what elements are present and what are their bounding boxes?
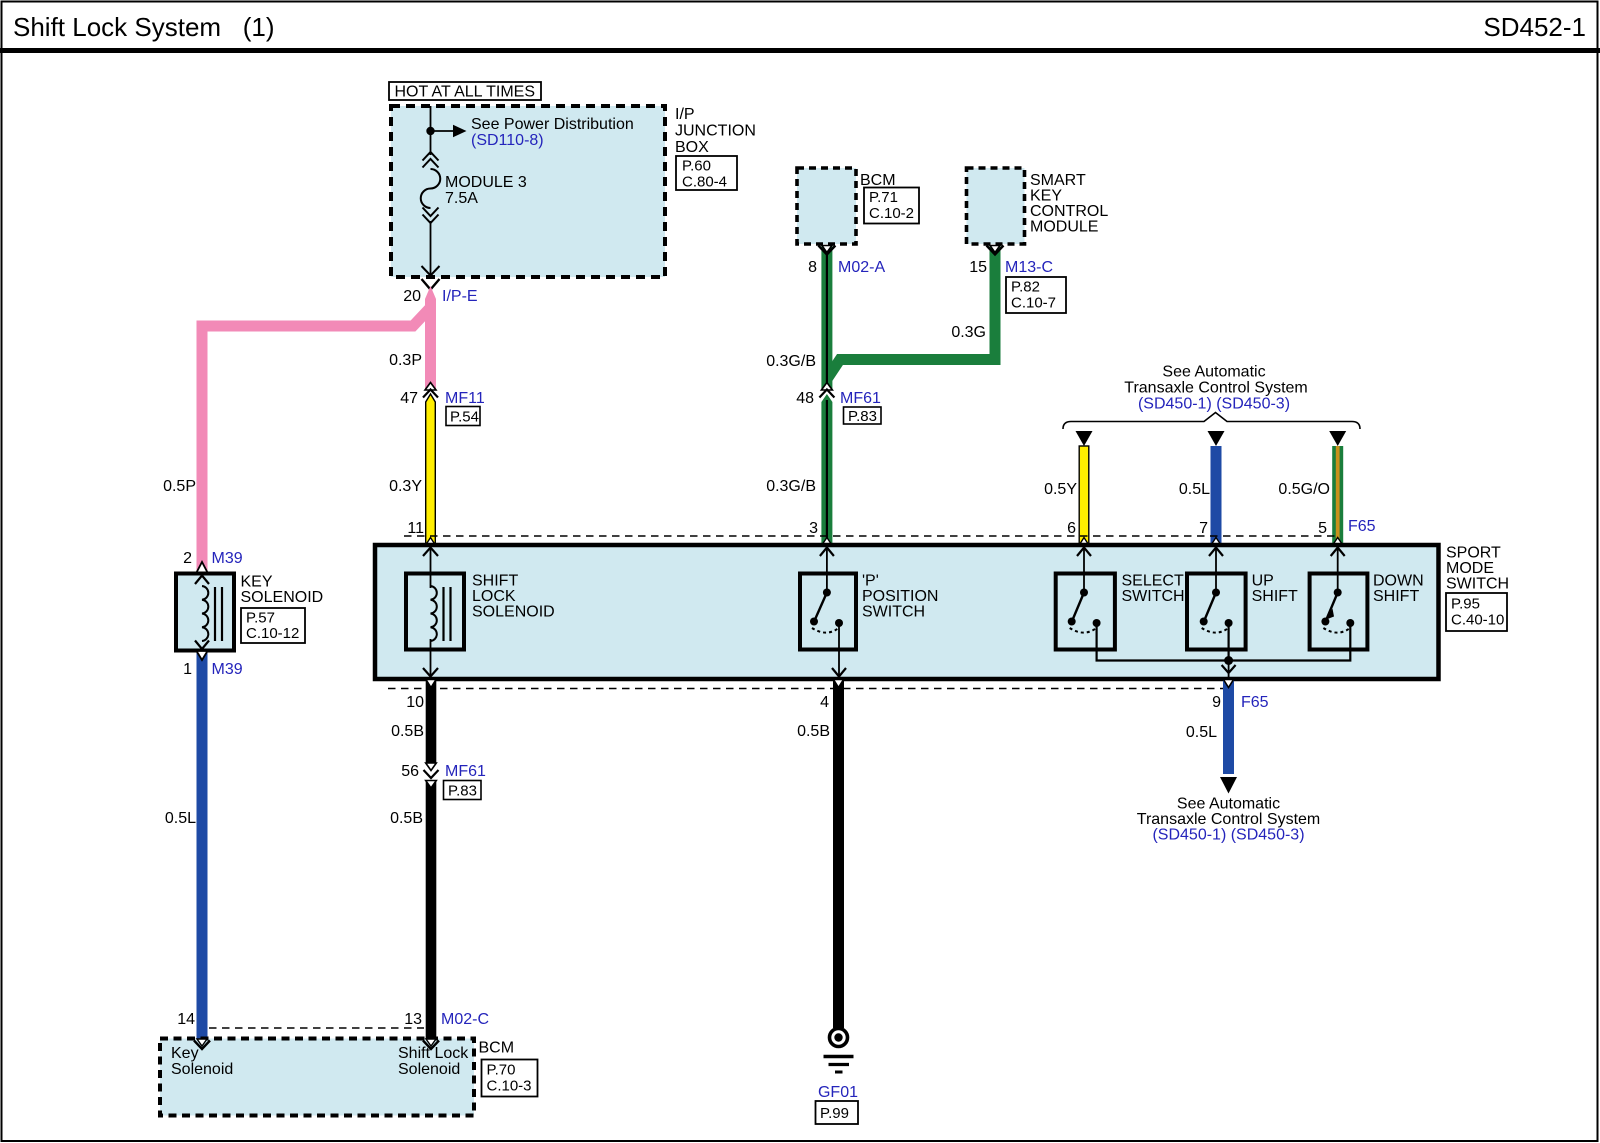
branch arrow to See Power Distribution bbox=[431, 125, 467, 137]
svg-text:See Automatic: See Automatic bbox=[1177, 796, 1280, 813]
notch pin 5 bbox=[1333, 538, 1343, 546]
notch pin 14 bbox=[197, 1039, 207, 1046]
svg-text:KEY: KEY bbox=[241, 574, 273, 591]
down shift switch box bbox=[1310, 574, 1368, 650]
junction dot pin 9 bbox=[1224, 656, 1233, 665]
svg-text:SHIFT: SHIFT bbox=[1373, 588, 1419, 605]
connector 47 MF11: notch, chevron bbox=[423, 383, 438, 398]
connector pin 15 notch and chevron bbox=[987, 246, 1004, 255]
wire 0.3P pink vertical from I/P-E bbox=[425, 286, 436, 390]
svg-text:0.5B: 0.5B bbox=[797, 723, 830, 740]
svg-text:C.10-2: C.10-2 bbox=[869, 205, 914, 222]
svg-text:Solenoid: Solenoid bbox=[398, 1061, 460, 1078]
connector 56 MF61: tip, notch, chevron bbox=[424, 763, 439, 778]
label SPORT MODE SWITCH bbox=[1446, 545, 1509, 593]
fuse MODULE 3 7.5A bbox=[421, 152, 441, 276]
svg-text:DOWN: DOWN bbox=[1373, 573, 1424, 590]
BCM bottom box (dashed) bbox=[160, 1039, 474, 1116]
notch below connector 56 bbox=[426, 781, 437, 789]
harness dashed line top bbox=[404, 535, 1338, 537]
svg-text:MF11: MF11 bbox=[445, 390, 485, 407]
svg-text:10: 10 bbox=[406, 694, 424, 711]
svg-text:I/P-E: I/P-E bbox=[442, 288, 478, 305]
svg-text:2: 2 bbox=[183, 550, 192, 567]
wire 0.3G/B green with black stripe from BCM to MF61 bbox=[821, 246, 832, 391]
label box P.83 (MF61-48) bbox=[844, 407, 882, 425]
svg-text:F65: F65 bbox=[1348, 518, 1376, 535]
BCM box (dashed) bbox=[797, 168, 856, 244]
svg-text:0.5Y: 0.5Y bbox=[1044, 481, 1077, 498]
svg-text:9: 9 bbox=[1212, 694, 1221, 711]
wire 0.5L blue from key solenoid to pin 14 bbox=[197, 651, 208, 1039]
notch pin 3 bbox=[822, 538, 832, 546]
SMART KEY CONTROL MODULE box (dashed) bbox=[967, 168, 1025, 244]
select switch box bbox=[1056, 574, 1115, 650]
svg-text:C.40-10: C.40-10 bbox=[1451, 612, 1504, 629]
svg-text:0.3G/B: 0.3G/B bbox=[766, 353, 816, 370]
svg-text:SHIFT: SHIFT bbox=[1252, 588, 1298, 605]
svg-text:UP: UP bbox=[1252, 573, 1274, 590]
svg-text:0.3G/B: 0.3G/B bbox=[766, 478, 816, 495]
connector chevron pin 14 bbox=[194, 1041, 210, 1050]
wire 0.5G/O green-orange to pin 5 bbox=[1332, 446, 1343, 545]
label box P.82 C.10-7 bbox=[1006, 277, 1066, 313]
label box P.99 bbox=[816, 1101, 859, 1124]
wire 0.5B black from MF61-56 to pin 13 bbox=[426, 780, 437, 1039]
title separator line bbox=[0, 48, 1600, 53]
svg-text:5: 5 bbox=[1318, 520, 1327, 537]
label DOWN SHIFT bbox=[1373, 573, 1424, 606]
svg-text:P.54: P.54 bbox=[450, 409, 479, 426]
svg-text:1: 1 bbox=[183, 661, 192, 678]
label box P.71 C.10-2 bbox=[864, 188, 919, 224]
svg-text:F65: F65 bbox=[1241, 694, 1269, 711]
arrow triangle below pin 9 wire bbox=[1220, 777, 1237, 794]
svg-text:C.10-7: C.10-7 bbox=[1011, 295, 1056, 312]
connector pin 8 notch and chevron bbox=[818, 246, 835, 255]
svg-text:GF01: GF01 bbox=[818, 1084, 858, 1101]
svg-text:MF61: MF61 bbox=[840, 390, 881, 407]
key solenoid box bbox=[176, 574, 234, 651]
svg-text:SMART: SMART bbox=[1030, 172, 1086, 189]
svg-text:Shift Lock System (1): Shift Lock System (1) bbox=[13, 12, 275, 42]
wire interconnect select/up/down to pin 9 bbox=[1097, 623, 1351, 661]
notch pin 11 bbox=[426, 538, 436, 546]
svg-text:56: 56 bbox=[401, 763, 419, 780]
svg-text:15: 15 bbox=[969, 259, 987, 276]
connector 48 MF61: notch, chevron bbox=[819, 383, 834, 398]
down shift switch internal wire bbox=[1331, 545, 1345, 592]
label box P.57 C.10-12 bbox=[241, 608, 305, 643]
wire 0.5P pink branch to key solenoid bbox=[202, 309, 429, 573]
arrow triangle above wire 5 bbox=[1329, 431, 1346, 446]
svg-text:SPORT: SPORT bbox=[1446, 545, 1501, 562]
svg-text:MODULE 3: MODULE 3 bbox=[445, 174, 527, 191]
'P' position switch internal wires bbox=[820, 545, 846, 679]
notch pin 13 bbox=[426, 1039, 436, 1046]
svg-text:C.10-3: C.10-3 bbox=[487, 1078, 532, 1095]
svg-text:P.57: P.57 bbox=[246, 610, 275, 627]
label box P.83 (MF61-56) bbox=[444, 781, 482, 800]
label Shift Lock Solenoid bbox=[398, 1045, 469, 1078]
bracket over wires 6,7,5 bbox=[1063, 413, 1360, 430]
svg-text:See Automatic: See Automatic bbox=[1162, 364, 1265, 381]
svg-text:JUNCTION: JUNCTION bbox=[675, 123, 756, 140]
svg-text:0.5P: 0.5P bbox=[163, 478, 196, 495]
notch pin 7 bbox=[1211, 538, 1221, 546]
wire 0.3Y yellow from MF11 to pin 11 bbox=[426, 394, 436, 545]
shift lock solenoid box bbox=[406, 574, 464, 650]
notch pin 9 bbox=[1224, 680, 1234, 688]
svg-text:KEY: KEY bbox=[1030, 188, 1062, 205]
connector 20 I/P-E chevron bbox=[422, 279, 440, 290]
svg-text:0.3P: 0.3P bbox=[389, 352, 422, 369]
svg-text:SWITCH: SWITCH bbox=[862, 604, 925, 621]
label See Automatic Transaxle Control System (bottom) bbox=[1137, 796, 1320, 844]
wire 0.5L blue pin 9 to transaxle bbox=[1223, 679, 1234, 774]
I/P junction box (dashed) bbox=[391, 106, 665, 277]
select switch internal wire bbox=[1077, 545, 1091, 592]
HOT AT ALL TIMES box bbox=[389, 82, 541, 101]
svg-text:6: 6 bbox=[1067, 520, 1076, 537]
svg-text:M13-C: M13-C bbox=[1005, 259, 1053, 276]
down shift switch contacts bbox=[1321, 589, 1354, 633]
svg-text:I/P: I/P bbox=[675, 106, 695, 123]
notch pin 1 bbox=[197, 651, 208, 660]
label See Automatic Transaxle Control System (top) bbox=[1124, 364, 1307, 413]
svg-text:LOCK: LOCK bbox=[472, 588, 516, 605]
wire 0.5Y yellow to pin 6 bbox=[1079, 446, 1089, 545]
label I/P JUNCTION BOX bbox=[675, 106, 756, 156]
notch pin 6 bbox=[1079, 538, 1089, 546]
svg-text:47: 47 bbox=[400, 390, 418, 407]
shift lock solenoid internal wire bbox=[423, 545, 438, 679]
svg-text:P.99: P.99 bbox=[820, 1105, 849, 1122]
svg-text:48: 48 bbox=[796, 390, 814, 407]
shift lock solenoid core lines bbox=[444, 587, 451, 641]
svg-text:SHIFT: SHIFT bbox=[472, 573, 518, 590]
svg-text:POSITION: POSITION bbox=[862, 588, 938, 605]
select switch contacts bbox=[1068, 589, 1101, 633]
svg-text:See Power Distribution: See Power Distribution bbox=[471, 116, 634, 133]
svg-text:P.82: P.82 bbox=[1011, 279, 1040, 296]
svg-text:C.80-4: C.80-4 bbox=[682, 174, 727, 191]
label box P.60 C.80-4 bbox=[676, 156, 737, 191]
connector chevron pin 13 bbox=[423, 1041, 439, 1050]
svg-text:BCM: BCM bbox=[479, 1040, 515, 1057]
label SHIFT LOCK SOLENOID bbox=[472, 573, 555, 621]
harness dashed line bottom bbox=[388, 688, 1223, 690]
svg-text:Solenoid: Solenoid bbox=[171, 1061, 233, 1078]
harness dashed line above BCM bottom box bbox=[209, 1027, 424, 1029]
wire 0.5B black from 'P' switch pin 4 to ground bbox=[833, 679, 844, 1028]
svg-text:C.10-12: C.10-12 bbox=[246, 625, 299, 642]
svg-text:7.5A: 7.5A bbox=[445, 190, 478, 207]
svg-text:0.3G: 0.3G bbox=[951, 324, 986, 341]
label box P.95 C.40-10 bbox=[1446, 593, 1507, 631]
wire 0.5B black from shift lock solenoid pin 10 bbox=[426, 679, 437, 763]
svg-text:P.60: P.60 bbox=[682, 158, 711, 175]
svg-text:3: 3 bbox=[809, 520, 818, 537]
svg-text:0.3Y: 0.3Y bbox=[389, 478, 422, 495]
pin 2 notch on pink wire bbox=[197, 562, 208, 573]
svg-text:SWITCH: SWITCH bbox=[1446, 576, 1509, 593]
key solenoid internal arrows redraw over box bbox=[195, 576, 209, 650]
'P' position switch contacts bbox=[810, 589, 843, 633]
key solenoid coil bbox=[202, 586, 208, 641]
arrow triangle above wire 6 bbox=[1076, 431, 1093, 446]
svg-text:0.5L: 0.5L bbox=[1179, 481, 1210, 498]
wire 0.5L blue to pin 7 bbox=[1211, 446, 1222, 545]
svg-text:P.83: P.83 bbox=[448, 783, 477, 800]
svg-text:P.83: P.83 bbox=[848, 408, 877, 425]
label Key Solenoid bbox=[171, 1045, 233, 1078]
label SMART KEY CONTROL MODULE bbox=[1030, 172, 1108, 236]
svg-text:0.5L: 0.5L bbox=[1186, 724, 1217, 741]
key solenoid internal wire and arrows bbox=[195, 574, 209, 651]
svg-text:14: 14 bbox=[177, 1011, 195, 1028]
svg-text:MF61: MF61 bbox=[445, 763, 486, 780]
svg-text:0.5L: 0.5L bbox=[165, 810, 196, 827]
svg-text:SD452-1: SD452-1 bbox=[1483, 12, 1586, 42]
SPORT MODE SWITCH box bbox=[375, 545, 1439, 679]
svg-text:MODE: MODE bbox=[1446, 560, 1494, 577]
svg-text:0.5B: 0.5B bbox=[390, 810, 423, 827]
svg-text:Key: Key bbox=[171, 1045, 199, 1062]
wire inside junction box bbox=[430, 106, 432, 155]
svg-text:8: 8 bbox=[808, 259, 817, 276]
svg-text:M39: M39 bbox=[212, 550, 243, 567]
svg-text:SELECT: SELECT bbox=[1122, 573, 1184, 590]
svg-text:20: 20 bbox=[403, 288, 421, 305]
svg-text:(SD110-8): (SD110-8) bbox=[471, 132, 544, 149]
svg-text:7: 7 bbox=[1199, 520, 1208, 537]
svg-text:Transaxle Control System: Transaxle Control System bbox=[1124, 380, 1307, 397]
svg-text:M39: M39 bbox=[212, 661, 243, 678]
svg-text:11: 11 bbox=[407, 520, 424, 537]
label KEY SOLENOID bbox=[241, 574, 324, 607]
svg-text:HOT AT ALL TIMES: HOT AT ALL TIMES bbox=[395, 84, 536, 101]
node junction dot bbox=[426, 127, 434, 135]
svg-text:0.5G/O: 0.5G/O bbox=[1278, 481, 1330, 498]
svg-text:Transaxle Control System: Transaxle Control System bbox=[1137, 811, 1320, 828]
svg-text:P.71: P.71 bbox=[869, 189, 898, 206]
up shift switch internal wire bbox=[1209, 545, 1223, 592]
svg-text:M02-C: M02-C bbox=[441, 1011, 489, 1028]
label UP SHIFT bbox=[1252, 573, 1298, 606]
label box P.54 bbox=[446, 407, 480, 426]
svg-text:M02-A: M02-A bbox=[838, 259, 885, 276]
svg-text:13: 13 bbox=[404, 1011, 422, 1028]
svg-text:P.70: P.70 bbox=[487, 1062, 516, 1079]
label box P.70 C.10-3 bbox=[482, 1060, 538, 1097]
svg-text:SOLENOID: SOLENOID bbox=[241, 589, 324, 606]
shift lock solenoid coil bbox=[431, 586, 437, 641]
svg-text:BCM: BCM bbox=[860, 172, 896, 189]
svg-text:0.5B: 0.5B bbox=[391, 723, 424, 740]
ground GF01 symbol bbox=[824, 1029, 854, 1073]
svg-text:(SD450-1) (SD450-3): (SD450-1) (SD450-3) bbox=[1152, 827, 1304, 844]
wire 0.3G/B green with black stripe from MF61 to pin 3 bbox=[821, 394, 832, 545]
svg-text:P.95: P.95 bbox=[1451, 596, 1480, 613]
notch pin 10 bbox=[426, 680, 436, 688]
svg-text:Shift Lock: Shift Lock bbox=[398, 1045, 469, 1062]
svg-text:BOX: BOX bbox=[675, 139, 709, 156]
svg-text:4: 4 bbox=[820, 694, 829, 711]
svg-text:MODULE: MODULE bbox=[1030, 219, 1098, 236]
svg-text:SWITCH: SWITCH bbox=[1122, 588, 1185, 605]
label SELECT SWITCH bbox=[1122, 573, 1185, 606]
svg-text:'P': 'P' bbox=[862, 573, 879, 590]
'P' position switch box bbox=[800, 574, 856, 650]
svg-text:CONTROL: CONTROL bbox=[1030, 203, 1108, 220]
svg-text:SOLENOID: SOLENOID bbox=[472, 604, 555, 621]
arrow down to pin 9 bbox=[1222, 661, 1236, 680]
arrow triangle above wire 7 bbox=[1208, 431, 1225, 446]
up shift switch box bbox=[1187, 574, 1246, 650]
wire 0.3G from smart key module (green) bbox=[827, 246, 995, 380]
up shift switch contacts bbox=[1200, 589, 1233, 633]
notch pin 4 bbox=[834, 680, 844, 688]
key solenoid core lines bbox=[215, 587, 222, 641]
label 'P' POSITION SWITCH bbox=[862, 573, 938, 621]
svg-text:(SD450-1) (SD450-3): (SD450-1) (SD450-3) bbox=[1138, 396, 1290, 413]
